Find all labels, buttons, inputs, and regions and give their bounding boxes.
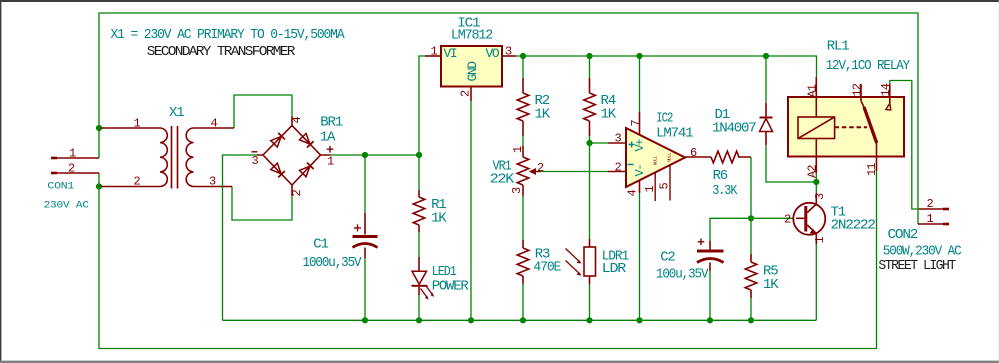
regulator IC1 LM7812 [425,16,516,101]
svg-text:NULL: NULL [652,155,658,165]
svg-text:V-: V- [633,165,647,177]
node junction ground C2 [707,317,713,323]
node junction base/C2/R5 [748,215,754,221]
node junction R1/IC1 top [416,152,422,158]
node junction ground LED1 [416,317,422,323]
page border bottom [0,361,1000,363]
resistor R4 [584,78,617,136]
potentiometer VR1 [490,146,544,196]
svg-text:IC2: IC2 [656,110,673,126]
wire R2 chain [522,56,524,320]
wire base node to C2 [710,218,751,320]
svg-text:1: 1 [327,155,334,169]
resistor R2 [517,78,551,136]
wire R6 down to base node [750,157,752,218]
relay RL1 [788,38,911,182]
svg-text:3: 3 [209,175,216,189]
svg-text:1: 1 [511,146,525,153]
svg-text:470E: 470E [533,260,561,276]
connector CON2 [878,197,961,274]
svg-text:4: 4 [626,190,640,197]
wire bridge plus to C1/R1 rail [330,154,419,156]
svg-text:1: 1 [431,45,438,59]
svg-text:3: 3 [510,187,524,194]
wire R1/LED branch [418,155,420,320]
svg-text:1: 1 [813,237,827,244]
wire bridge minus to ground rail [223,155,258,320]
svg-text:100u,35V: 100u,35V [656,266,709,282]
svg-text:BR1: BR1 [320,115,342,131]
svg-text:2: 2 [927,197,934,211]
svg-text:6: 6 [690,146,697,160]
svg-text:C1: C1 [313,237,328,253]
svg-text:2: 2 [615,160,622,174]
svg-text:CON2: CON2 [888,227,919,243]
connector CON1 [44,147,99,212]
op-amp IC2 LM741 [608,110,697,201]
svg-text:VI: VI [444,46,457,61]
svg-text:2: 2 [68,162,75,176]
svg-text:2: 2 [784,213,791,227]
svg-text:230V AC: 230V AC [44,199,89,211]
node junction R2 top [520,53,526,59]
node junction CON1/X1 pin1 [96,125,102,131]
capacitor C1 [303,213,378,271]
svg-text:1K: 1K [601,107,617,123]
svg-text:1: 1 [69,147,76,161]
svg-text:12: 12 [850,83,864,96]
wire R5 branch [750,218,752,320]
svg-text:X1 = 230V AC PRIMARY TO 0-15V,: X1 = 230V AC PRIMARY TO 0-15V,500MA [111,27,346,43]
svg-text:V+: V+ [633,139,647,152]
node junction ground C1 [362,317,368,323]
svg-text:A2: A2 [805,165,819,178]
svg-text:LM7812: LM7812 [451,28,493,44]
node junction ground R3 [520,317,526,323]
node junction ground R5 [748,317,754,323]
svg-text:1N4007: 1N4007 [712,121,756,137]
node junction ground IC1 [468,317,474,323]
svg-text:SECONDARY TRANSFORMER: SECONDARY TRANSFORMER [147,44,296,60]
svg-text:VO: VO [486,46,500,61]
svg-text:GND: GND [465,61,480,82]
wire X1 pin3 to bridge bottom [232,187,292,221]
svg-text:3: 3 [252,154,259,168]
svg-text:5: 5 [657,183,671,190]
wire base node to T1 [751,217,796,219]
svg-text:LDR: LDR [602,261,627,277]
svg-text:3: 3 [813,193,827,200]
svg-text:C2: C2 [660,250,675,266]
bridge rectifier BR1 [252,115,343,197]
node junction CON1/X1 pin2 [96,183,102,189]
wire mains loop bottom (CON1 pin2 to relay pin11) [99,171,877,349]
resistor R3 [517,240,561,284]
node junction opamp V+ top [636,53,642,59]
svg-text:1: 1 [927,212,934,226]
node junction ground IC2 pin4 [636,317,642,323]
wire X1 pin4 to bridge top [234,95,292,128]
svg-text:2N2222: 2N2222 [831,218,876,234]
transformer X1 [101,105,234,189]
photoresistor LDR1 [566,239,629,284]
capacitor C2 [656,239,724,283]
wire relay pin14 to CON2 pin2 [890,81,919,210]
svg-text:11: 11 [865,163,879,176]
svg-text:1K: 1K [431,211,447,227]
wire mains loop top (CON1 pin1 to CON2) [99,13,918,224]
svg-text:1: 1 [643,186,657,193]
wire D1 branch [766,56,816,182]
node junction R4/LDR/op-amp pin3 [586,140,592,146]
wire X1 pin2 [99,186,103,188]
svg-text:1K: 1K [763,277,779,293]
svg-text:2: 2 [290,190,304,197]
wire R4/LDR chain [589,56,591,320]
diode D1 1N4007 [712,103,773,145]
svg-text:3.3K: 3.3K [712,183,738,199]
wire X1 pin1 [99,127,103,129]
node junction ground LDR1 [586,317,592,323]
node junction C1 top [362,152,368,158]
wire IC1 VI riser [419,56,425,155]
svg-text:3: 3 [505,45,512,59]
wire op-amp V+ pin7 [639,56,641,112]
svg-text:POWER: POWER [432,278,470,294]
wire op-amp pin3 [590,142,609,144]
svg-text:4: 4 [290,117,304,124]
svg-text:2: 2 [537,161,544,175]
svg-text:RL1: RL1 [827,38,849,54]
wire ground rail [223,319,817,321]
wire C1 branch [364,155,366,320]
svg-text:A1: A1 [805,84,819,97]
page border top [0,0,1000,2]
resistor R5 [745,254,779,298]
wire IC1 GND down [470,101,472,320]
page border right [999,0,1000,363]
page border left [0,0,1,363]
svg-text:STREET LIGHT: STREET LIGHT [878,258,956,274]
svg-text:3: 3 [615,131,622,145]
wire +12V rail [516,56,817,77]
svg-text:12V,1CO RELAY: 12V,1CO RELAY [826,58,911,74]
svg-text:2: 2 [134,175,141,189]
svg-text:22K: 22K [490,172,515,188]
svg-text:2: 2 [459,90,473,97]
svg-text:1A: 1A [320,130,336,146]
transistor T1 2N2222 [784,182,876,244]
svg-text:4: 4 [211,117,218,131]
LED LED1 [412,257,470,300]
svg-text:CON1: CON1 [47,180,74,192]
resistor R6 [685,151,751,199]
node junction D1 top [763,53,769,59]
svg-text:1000u,35V: 1000u,35V [303,255,363,271]
svg-text:7: 7 [629,120,643,127]
svg-text:X1: X1 [169,105,184,121]
svg-text:NULL: NULL [666,152,672,162]
node junction R4 top [586,53,592,59]
svg-text:LM741: LM741 [656,126,693,142]
node junction T1 collector [813,179,819,185]
wire T1 emitter to ground rail [815,244,817,320]
svg-text:14: 14 [879,83,893,96]
svg-text:R6: R6 [713,168,728,184]
resistor R1 [413,190,447,232]
svg-text:1: 1 [134,117,141,131]
wire op-amp pin2 from VR1 wiper [541,171,608,173]
svg-text:1K: 1K [535,107,551,123]
wire op-amp V- pin4 to ground [639,193,641,320]
